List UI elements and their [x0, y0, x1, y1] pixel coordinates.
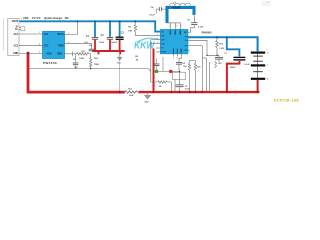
svg-text:1: 1 — [169, 26, 170, 28]
svg-text:- VD1:: - VD1: — [21, 16, 29, 20]
svg-text:FB: FB — [65, 16, 69, 20]
svg-text:5mR: 5mR — [129, 95, 134, 97]
svg-text:PSW: PSW — [58, 45, 64, 48]
svg-text:CC2: CC2 — [44, 45, 49, 48]
svg-text:VBUS: VBUS — [12, 21, 19, 23]
svg-text:6: 6 — [177, 58, 178, 60]
svg-text:2: 2 — [157, 34, 158, 36]
svg-text:8: 8 — [39, 44, 40, 46]
svg-text:150K: 150K — [94, 64, 99, 66]
svg-text:GND: GND — [144, 101, 149, 103]
svg-text:0.1uF: 0.1uF — [244, 64, 250, 66]
svg-text:SW: SW — [185, 37, 188, 39]
svg-text:3: 3 — [157, 38, 158, 40]
svg-text:120K: 120K — [79, 58, 84, 60]
svg-text:0.1uF: 0.1uF — [149, 14, 155, 16]
svg-text:Quick-charge:: Quick-charge: — [44, 16, 63, 20]
svg-text:VDD: VDD — [57, 53, 62, 56]
svg-text:5: 5 — [173, 58, 174, 60]
svg-text:1: 1 — [39, 32, 40, 34]
svg-text:KKW: KKW — [134, 41, 156, 52]
svg-text:CC1: CC1 — [44, 33, 49, 36]
svg-text:PW4606: PW4606 — [43, 61, 57, 65]
svg-text:R16: R16 — [218, 63, 221, 65]
svg-text:100nF: 100nF — [111, 42, 118, 44]
svg-text:2: 2 — [39, 52, 40, 54]
svg-text:GND: GND — [117, 62, 122, 64]
svg-text:GND: GND — [13, 53, 18, 55]
svg-text:D-: D- — [16, 26, 19, 28]
svg-text:4.7uH: 4.7uH — [172, 6, 180, 10]
svg-text:CC2: CC2 — [14, 46, 19, 48]
svg-text:UCPCB-168: UCPCB-168 — [274, 99, 299, 103]
svg-text:100uF: 100uF — [230, 67, 237, 69]
svg-text:+: + — [266, 49, 267, 51]
svg-text:PW4000: PW4000 — [202, 31, 213, 35]
svg-text:CC1: CC1 — [14, 34, 19, 36]
svg-text:VBUS: VBUS — [57, 33, 64, 36]
svg-text:1.2M: 1.2M — [219, 48, 224, 50]
svg-text:2: 2 — [176, 26, 177, 28]
svg-text:P+: P+ — [267, 53, 269, 55]
svg-text:0.1uF: 0.1uF — [198, 27, 204, 29]
svg-text:10K: 10K — [128, 31, 132, 33]
svg-text:22uF: 22uF — [99, 42, 105, 44]
svg-text:3: 3 — [181, 26, 182, 28]
svg-text:VDD: VDD — [47, 53, 52, 56]
svg-text:FV CV:: FV CV: — [32, 16, 41, 20]
svg-text:4: 4 — [157, 41, 158, 44]
svg-text:R13: R13 — [128, 89, 131, 91]
svg-text:POFB: POFB — [161, 51, 166, 53]
